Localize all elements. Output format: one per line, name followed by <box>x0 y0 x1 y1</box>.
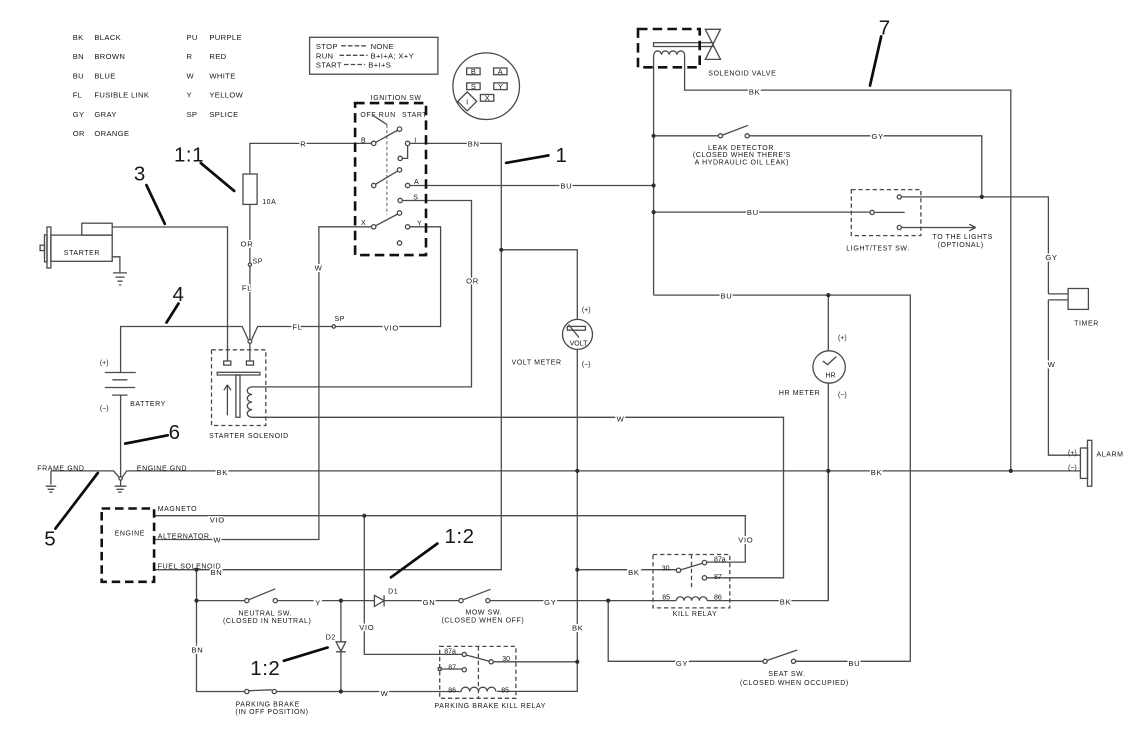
svg-text:BU: BU <box>721 292 733 301</box>
svg-text:BN: BN <box>192 645 204 654</box>
svg-text:86: 86 <box>448 687 456 694</box>
svg-text:A: A <box>414 179 419 186</box>
svg-text:SP: SP <box>335 316 346 323</box>
svg-text:X: X <box>485 94 490 103</box>
svg-text:W: W <box>1048 360 1056 369</box>
svg-text:(−): (−) <box>1068 465 1077 472</box>
svg-text:BK: BK <box>749 88 761 97</box>
svg-text:1:2: 1:2 <box>445 525 475 548</box>
svg-text:(+): (+) <box>582 307 591 314</box>
svg-text:BATTERY: BATTERY <box>130 401 166 408</box>
svg-text:RUN: RUN <box>316 51 334 60</box>
svg-text:BK: BK <box>628 568 640 577</box>
svg-text:A HYDRAULIC OIL LEAK): A HYDRAULIC OIL LEAK) <box>695 160 789 167</box>
svg-text:SEAT SW.: SEAT SW. <box>768 671 805 678</box>
svg-text:(+): (+) <box>100 360 109 367</box>
svg-text:OR: OR <box>73 129 85 138</box>
svg-text:(CLOSED WHEN THERE'S: (CLOSED WHEN THERE'S <box>693 152 791 159</box>
svg-text:TO THE LIGHTS: TO THE LIGHTS <box>932 234 992 241</box>
svg-text:MOW SW.: MOW SW. <box>465 609 502 616</box>
svg-text:(−): (−) <box>838 392 847 399</box>
svg-text:Y: Y <box>417 221 422 228</box>
svg-text:1: 1 <box>556 144 568 167</box>
svg-text:PURPLE: PURPLE <box>209 33 242 42</box>
svg-text:30: 30 <box>662 565 670 572</box>
svg-text:VIO: VIO <box>738 536 753 545</box>
svg-text:BROWN: BROWN <box>94 52 125 61</box>
svg-text:1:1: 1:1 <box>174 144 204 167</box>
svg-text:FL: FL <box>73 91 83 100</box>
svg-text:ALARM: ALARM <box>1097 451 1124 458</box>
svg-text:START: START <box>402 112 427 119</box>
svg-text:BU: BU <box>747 208 759 217</box>
svg-text:BN: BN <box>73 52 84 61</box>
svg-text:VIO: VIO <box>384 323 399 332</box>
svg-text:R: R <box>300 139 306 148</box>
svg-text:(+): (+) <box>1068 450 1077 457</box>
svg-text:W: W <box>381 689 389 698</box>
svg-text:1:2: 1:2 <box>250 657 280 680</box>
svg-text:7: 7 <box>879 17 891 40</box>
svg-text:FL: FL <box>292 323 302 332</box>
svg-text:B+I+S: B+I+S <box>368 61 391 70</box>
svg-text:R: R <box>187 52 193 61</box>
svg-text:S: S <box>413 195 418 202</box>
svg-text:4: 4 <box>173 283 185 306</box>
svg-text:PU: PU <box>187 33 198 42</box>
svg-text:NEUTRAL SW.: NEUTRAL SW. <box>238 610 292 617</box>
svg-text:BLUE: BLUE <box>94 71 115 80</box>
svg-text:85: 85 <box>501 687 509 694</box>
svg-text:A: A <box>498 67 503 76</box>
svg-text:I: I <box>466 98 468 107</box>
svg-text:SPLICE: SPLICE <box>209 110 238 119</box>
svg-text:87: 87 <box>448 665 456 672</box>
svg-text:START: START <box>316 61 342 70</box>
svg-text:ALTERNATOR: ALTERNATOR <box>158 534 210 541</box>
svg-text:VOLT: VOLT <box>570 341 588 348</box>
svg-text:(CLOSED WHEN OFF): (CLOSED WHEN OFF) <box>441 617 524 624</box>
svg-text:ENGINE: ENGINE <box>115 531 145 538</box>
svg-text:S: S <box>471 82 476 91</box>
svg-text:BU: BU <box>560 182 572 191</box>
svg-text:BK: BK <box>73 33 84 42</box>
svg-text:(−): (−) <box>582 361 591 368</box>
svg-text:B+I+A; X+Y: B+I+A; X+Y <box>371 51 414 60</box>
svg-text:X: X <box>361 220 366 227</box>
svg-text:VIO: VIO <box>359 623 374 632</box>
svg-text:OR: OR <box>466 277 479 286</box>
svg-text:Y: Y <box>315 598 321 607</box>
svg-text:VIO: VIO <box>210 515 225 524</box>
svg-text:BN: BN <box>468 139 480 148</box>
svg-text:3: 3 <box>134 163 146 186</box>
svg-text:HR METER: HR METER <box>779 390 820 397</box>
svg-text:HR: HR <box>825 373 835 380</box>
svg-text:YELLOW: YELLOW <box>209 91 243 100</box>
svg-text:OR: OR <box>241 239 254 248</box>
svg-text:30: 30 <box>502 656 510 663</box>
svg-text:KILL RELAY: KILL RELAY <box>673 611 718 618</box>
svg-text:W: W <box>213 536 221 545</box>
svg-text:GY: GY <box>73 110 85 119</box>
svg-text:ORANGE: ORANGE <box>94 129 129 138</box>
svg-text:10A: 10A <box>262 199 276 206</box>
svg-text:5: 5 <box>44 528 56 551</box>
svg-text:GRAY: GRAY <box>94 110 116 119</box>
svg-text:B: B <box>471 67 476 76</box>
svg-text:86: 86 <box>714 595 722 602</box>
svg-text:(CLOSED WHEN OCCUPIED): (CLOSED WHEN OCCUPIED) <box>740 680 849 687</box>
svg-text:(OPTIONAL): (OPTIONAL) <box>938 242 984 249</box>
svg-text:VOLT METER: VOLT METER <box>512 359 562 366</box>
svg-text:87a: 87a <box>444 649 456 656</box>
svg-text:I: I <box>414 137 417 144</box>
svg-text:(IN OFF POSITION): (IN OFF POSITION) <box>235 709 308 716</box>
svg-text:FUEL SOLENOID: FUEL SOLENOID <box>158 563 222 570</box>
svg-text:W: W <box>187 71 195 80</box>
svg-text:87: 87 <box>714 574 722 581</box>
svg-text:OFF: OFF <box>360 112 376 119</box>
svg-text:(+): (+) <box>838 335 847 342</box>
svg-text:B: B <box>361 137 366 144</box>
svg-text:(CLOSED IN NEUTRAL): (CLOSED IN NEUTRAL) <box>223 618 311 625</box>
svg-text:GY: GY <box>676 659 688 668</box>
svg-text:BK: BK <box>572 623 584 632</box>
svg-text:Y: Y <box>498 82 503 91</box>
svg-text:STOP: STOP <box>316 42 338 51</box>
svg-text:W: W <box>315 264 323 273</box>
svg-text:BK: BK <box>780 598 792 607</box>
svg-text:BU: BU <box>848 659 860 668</box>
svg-text:TIMER: TIMER <box>1074 320 1099 327</box>
svg-text:IGNITION SW: IGNITION SW <box>371 95 422 102</box>
svg-text:LIGHT/TEST SW.: LIGHT/TEST SW. <box>846 245 910 252</box>
svg-text:D1: D1 <box>388 588 398 595</box>
svg-text:RED: RED <box>209 52 226 61</box>
svg-text:(−): (−) <box>100 406 109 413</box>
svg-text:FL: FL <box>242 284 252 293</box>
svg-text:ENGINE GND: ENGINE GND <box>137 465 187 472</box>
svg-text:RUN: RUN <box>379 112 396 119</box>
svg-text:SP: SP <box>187 110 198 119</box>
svg-text:GY: GY <box>1045 253 1057 262</box>
svg-text:GY: GY <box>544 598 556 607</box>
svg-text:BU: BU <box>73 71 84 80</box>
svg-text:FUSIBLE LINK: FUSIBLE LINK <box>94 91 149 100</box>
svg-text:85: 85 <box>662 595 670 602</box>
svg-text:GY: GY <box>872 132 884 141</box>
svg-text:PARKING BRAKE: PARKING BRAKE <box>235 702 299 709</box>
svg-text:STARTER SOLENOID: STARTER SOLENOID <box>209 433 289 440</box>
svg-text:D2: D2 <box>326 635 336 642</box>
svg-text:6: 6 <box>169 421 181 444</box>
svg-text:GN: GN <box>423 598 436 607</box>
svg-text:MAGNETO: MAGNETO <box>158 506 197 513</box>
svg-text:Y: Y <box>187 91 192 100</box>
svg-text:W: W <box>617 414 625 423</box>
svg-text:PARKING BRAKE KILL RELAY: PARKING BRAKE KILL RELAY <box>435 703 547 710</box>
svg-text:WHITE: WHITE <box>209 71 235 80</box>
svg-text:BLACK: BLACK <box>94 33 121 42</box>
svg-text:BK: BK <box>217 468 229 477</box>
svg-text:87a: 87a <box>714 557 726 564</box>
svg-text:FRAME GND: FRAME GND <box>37 465 84 472</box>
svg-text:STARTER: STARTER <box>64 250 100 257</box>
svg-text:SOLENOID VALVE: SOLENOID VALVE <box>708 71 776 78</box>
svg-text:LEAK DETECTOR: LEAK DETECTOR <box>708 145 774 152</box>
svg-text:BK: BK <box>871 468 883 477</box>
svg-text:NONE: NONE <box>371 42 394 51</box>
svg-text:SP: SP <box>253 259 264 266</box>
